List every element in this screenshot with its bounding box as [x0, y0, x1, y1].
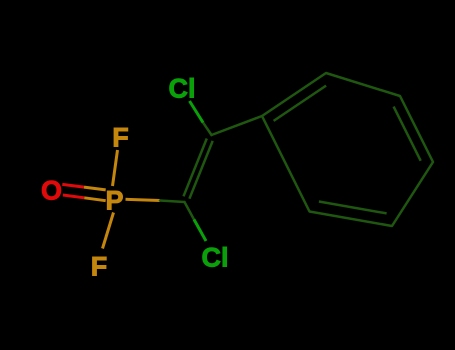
bond C1 to Cl1 green half: [190, 101, 204, 123]
svg-text:F: F: [112, 123, 129, 153]
P=O double bond upper line orange half: [84, 187, 106, 190]
svg-text:F: F: [91, 252, 108, 282]
P=O double bond lower line orange half: [84, 198, 105, 201]
vinyl double bond C1=C2 line B: [189, 141, 212, 199]
P=O double bond lower line red half: [63, 195, 84, 198]
svg-text:Cl: Cl: [169, 74, 196, 104]
bond P to C2 dark half: [160, 201, 185, 203]
P=O double bond upper line red half: [62, 184, 84, 187]
benzene ring outline: [262, 73, 433, 226]
bond C2 to Cl2 dark half: [185, 202, 195, 220]
bond P to F1: [113, 150, 118, 186]
vinyl double bond C1=C2 line A: [184, 139, 207, 197]
bond C1 to Cl1 dark half: [203, 123, 212, 136]
bond P to C2 orange half: [126, 199, 161, 200]
aromatic inner bond top-left: [274, 86, 327, 121]
aromatic inner bond right: [394, 107, 421, 161]
svg-text:P: P: [105, 186, 123, 216]
bond C1 to ring ipso carbon: [212, 116, 263, 135]
bond C2 to Cl2 green half: [194, 220, 206, 242]
svg-text:Cl: Cl: [202, 243, 229, 273]
bond P to F2: [103, 213, 114, 249]
svg-text:O: O: [41, 176, 62, 206]
aromatic inner bond bottom: [319, 202, 387, 214]
